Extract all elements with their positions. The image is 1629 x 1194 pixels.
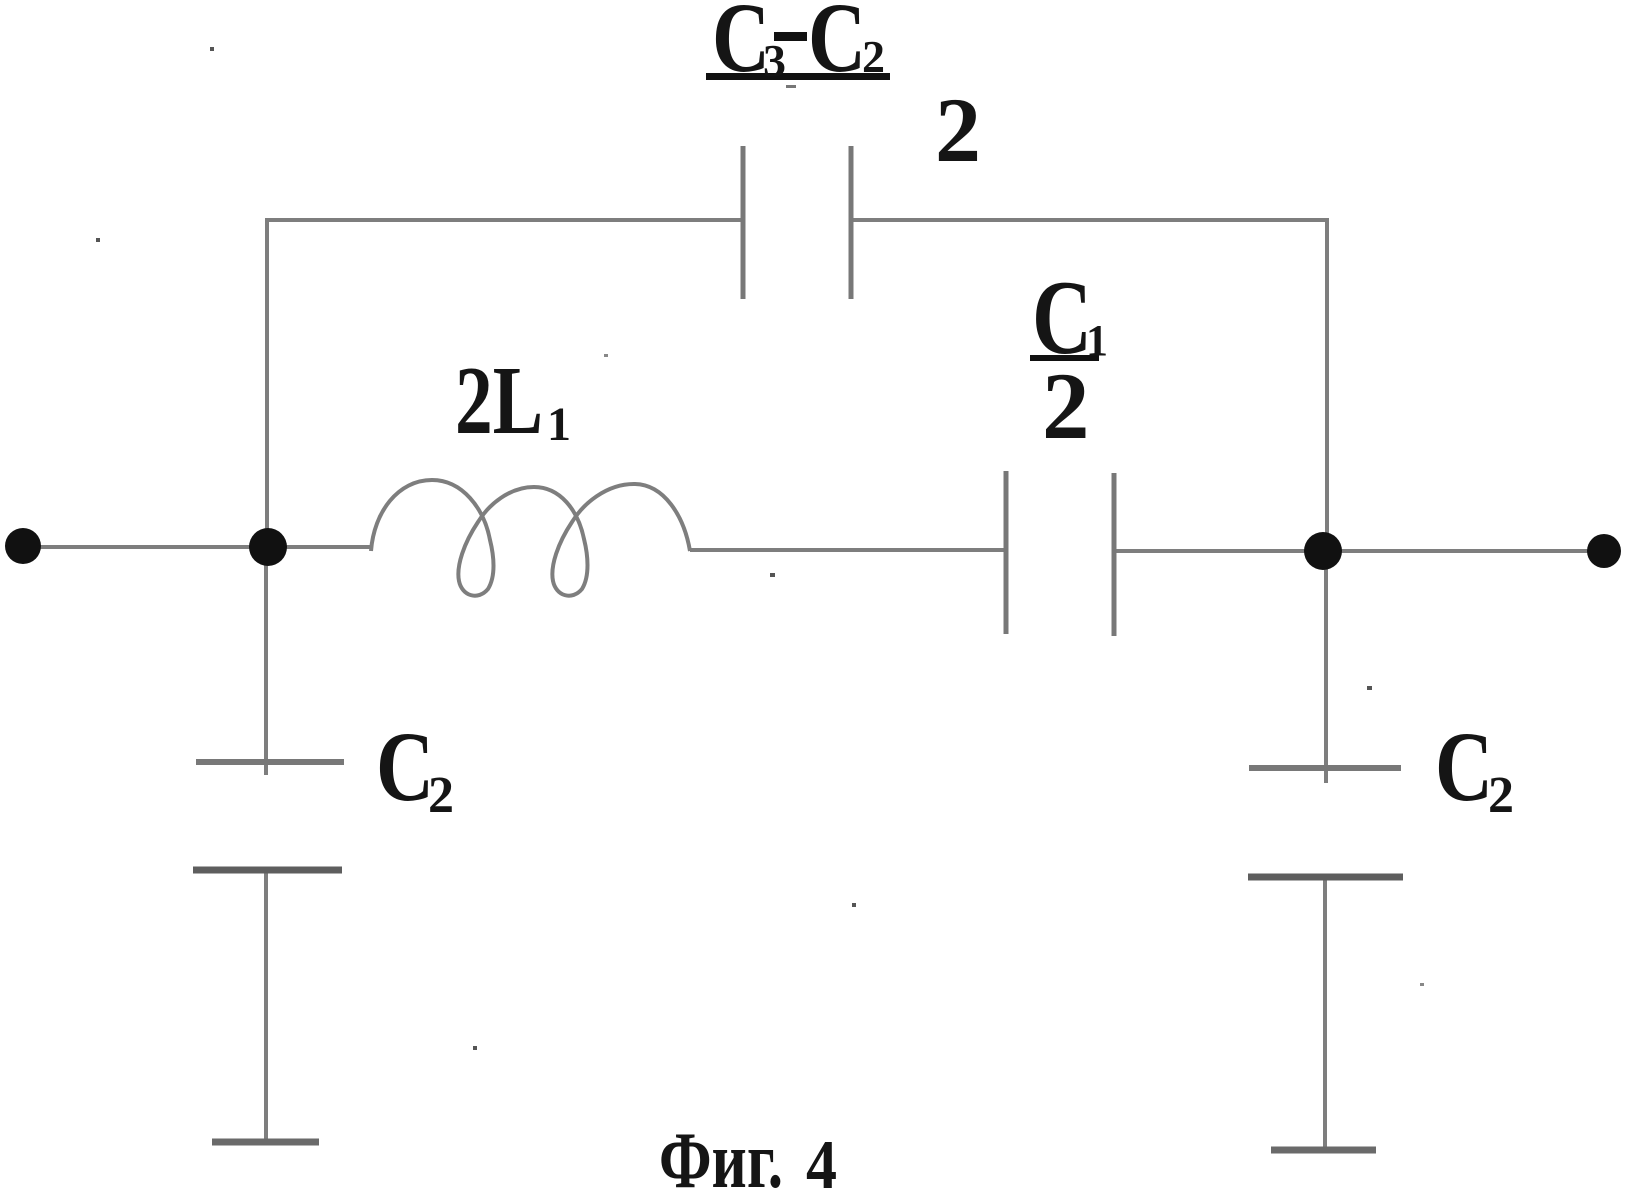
svg-text:C: C — [1435, 711, 1493, 822]
svg-text:C: C — [376, 711, 434, 822]
svg-text:Фиг.: Фиг. — [659, 1117, 783, 1194]
svg-text:1: 1 — [547, 398, 571, 451]
svg-text:2: 2 — [862, 31, 885, 82]
svg-text:3: 3 — [763, 35, 786, 86]
svg-text:4: 4 — [806, 1127, 837, 1194]
svg-text:2: 2 — [1488, 767, 1514, 824]
svg-text:C: C — [712, 0, 770, 93]
svg-text:2: 2 — [1042, 353, 1090, 459]
svg-text:C: C — [808, 0, 866, 93]
svg-text:2: 2 — [428, 767, 454, 824]
svg-text:2: 2 — [935, 79, 981, 181]
svg-text:2L: 2L — [455, 347, 543, 454]
